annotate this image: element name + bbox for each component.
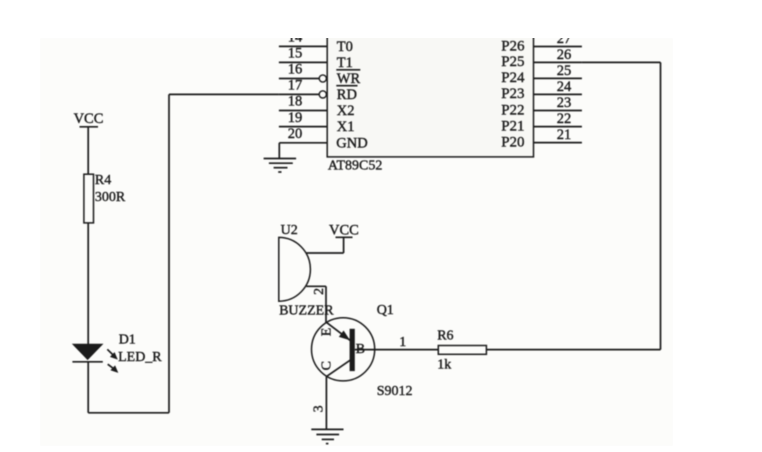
pin 18 (X2) <box>279 94 355 119</box>
pin 23 (P22) <box>501 95 582 118</box>
pin 14 (T0) <box>279 30 353 55</box>
svg-text:2: 2 <box>312 288 327 295</box>
pin 20 (GND) <box>279 126 367 151</box>
svg-text:P21: P21 <box>501 118 524 134</box>
svg-text:VCC: VCC <box>74 111 104 127</box>
svg-text:P20: P20 <box>501 134 524 150</box>
svg-text:P22: P22 <box>501 102 524 118</box>
svg-text:S9012: S9012 <box>377 384 413 399</box>
pin 21 (P20) <box>501 127 582 150</box>
resistor R6 <box>437 329 486 373</box>
svg-text:18: 18 <box>288 94 303 110</box>
svg-text:23: 23 <box>557 95 572 111</box>
wire Q1 base to R6 (pin 1) <box>355 335 439 350</box>
ground (Q1 collector) <box>311 429 343 443</box>
svg-text:X2: X2 <box>337 103 355 119</box>
svg-text:E: E <box>320 328 335 337</box>
wire VCC to buzzer pin 1 <box>306 237 343 253</box>
svg-text:LED_R: LED_R <box>118 350 162 365</box>
svg-text:WR: WR <box>337 71 361 87</box>
svg-text:15: 15 <box>288 46 303 62</box>
buzzer U2 <box>279 223 334 319</box>
pin 16 (WR, active-low bubble) <box>279 62 361 87</box>
wire VCC to R4 <box>87 127 89 174</box>
wire riser to RD pin <box>169 93 279 95</box>
svg-text:R4: R4 <box>95 173 111 188</box>
VCC symbol (left) <box>74 111 104 127</box>
pin 22 (P21) <box>501 111 582 134</box>
wire vertical riser <box>168 94 170 412</box>
svg-text:P24: P24 <box>501 70 525 86</box>
pin 25 (P24) <box>501 63 582 86</box>
svg-text:3: 3 <box>312 405 327 412</box>
svg-text:24: 24 <box>557 79 572 95</box>
IC U1 AT89C52 body <box>327 18 533 157</box>
wire buzzer pin 2 to Q1 emitter <box>306 286 327 322</box>
svg-text:U2: U2 <box>281 223 298 238</box>
wire Q1 collector to ground <box>312 377 327 430</box>
wire riser to pin 26 (P25) <box>582 62 661 349</box>
svg-text:RD: RD <box>337 87 357 103</box>
wire D1 cathode down <box>87 362 89 413</box>
wire R4 to D1 <box>87 223 89 345</box>
svg-text:1k: 1k <box>437 358 451 373</box>
svg-text:16: 16 <box>288 62 303 78</box>
svg-text:25: 25 <box>557 63 572 79</box>
resistor R4 <box>84 173 126 223</box>
wire pin 20 to ground <box>278 143 280 159</box>
svg-text:T1: T1 <box>337 55 353 71</box>
wire bottom horizontal <box>88 412 169 414</box>
svg-text:X1: X1 <box>337 119 355 135</box>
svg-text:1: 1 <box>399 335 406 350</box>
svg-text:D1: D1 <box>119 333 136 348</box>
pin 15 (T1) <box>279 46 353 71</box>
svg-text:R6: R6 <box>437 329 453 344</box>
pin 17 (RD, active-low bubble) <box>279 78 358 103</box>
svg-text:Q1: Q1 <box>377 303 394 318</box>
transistor Q1 <box>312 303 413 399</box>
svg-text:17: 17 <box>288 78 303 94</box>
svg-text:VCC: VCC <box>329 223 359 239</box>
ground (IC pin 20) <box>264 159 297 173</box>
VCC symbol (buzzer) <box>329 223 359 239</box>
svg-text:T0: T0 <box>337 39 353 55</box>
svg-text:GND: GND <box>336 135 367 151</box>
pin 19 (X1) <box>279 110 355 135</box>
svg-text:22: 22 <box>557 111 572 127</box>
pin 24 (P23) <box>501 79 582 102</box>
wire R6 to riser <box>486 349 660 351</box>
pin 27 (P26) <box>501 31 582 54</box>
svg-text:26: 26 <box>557 47 572 63</box>
svg-text:19: 19 <box>288 110 303 126</box>
svg-text:AT89C52: AT89C52 <box>328 159 382 174</box>
svg-text:P23: P23 <box>501 86 524 102</box>
LED D1 <box>72 333 162 373</box>
svg-text:P25: P25 <box>501 54 524 70</box>
svg-text:300R: 300R <box>95 190 126 205</box>
pin 26 (P25) <box>501 47 582 70</box>
svg-text:20: 20 <box>288 126 303 142</box>
svg-text:C: C <box>320 361 335 370</box>
svg-text:21: 21 <box>557 127 572 143</box>
svg-text:P26: P26 <box>501 38 525 54</box>
